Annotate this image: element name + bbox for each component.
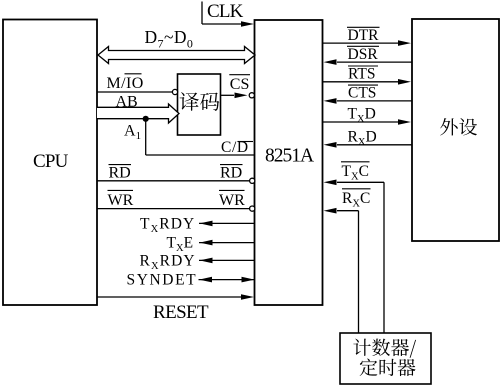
write strobe WR wire — [97, 190, 255, 211]
svg-text:8251A: 8251A — [265, 146, 314, 167]
counter/timer box 计数器/定时器 — [340, 333, 431, 384]
svg-text:RD: RD — [109, 165, 131, 182]
svg-text:DSR: DSR — [348, 46, 379, 63]
svg-text:AB: AB — [116, 94, 138, 111]
svg-text:M/IO: M/IO — [107, 75, 144, 92]
read strobe RD wire — [97, 165, 255, 184]
C/D control line label — [221, 139, 253, 156]
RxC receive clock from counter/timer — [324, 189, 371, 333]
RESET wire — [97, 294, 254, 323]
TxC transmit clock from counter/timer — [324, 162, 385, 333]
svg-text:TXRDY: TXRDY — [140, 215, 195, 235]
TxRDY status output — [140, 215, 255, 235]
TxE status output — [167, 235, 255, 255]
DTR output to peripheral — [323, 27, 412, 46]
svg-text:CS: CS — [230, 76, 250, 93]
TxD transmit data to peripheral — [323, 106, 412, 126]
svg-text:D7~D0: D7~D0 — [145, 27, 194, 51]
svg-text:WR: WR — [108, 192, 134, 209]
svg-text:RXRDY: RXRDY — [140, 252, 196, 272]
svg-text:CPU: CPU — [33, 151, 69, 172]
CPU box — [3, 20, 97, 306]
svg-text:WR: WR — [219, 192, 245, 209]
SYNDET bidirectional signal — [127, 272, 255, 289]
RxRDY status output — [140, 252, 255, 272]
svg-text:RD: RD — [220, 165, 242, 182]
8251A box U1 — [255, 20, 323, 305]
CTS input from peripheral — [324, 85, 413, 104]
data bus D7~D0 (double hollow arrow) — [98, 27, 255, 64]
svg-text:CLK: CLK — [207, 1, 244, 22]
CLK signal wire — [202, 1, 254, 27]
chip select CS from decoder — [221, 75, 255, 98]
svg-text:CTS: CTS — [348, 85, 376, 102]
address bus AB (hollow arrow into decoder) — [97, 94, 179, 124]
svg-text:SYNDET: SYNDET — [127, 272, 198, 289]
RxD receive data from peripheral — [324, 129, 413, 149]
svg-text:RTS: RTS — [348, 66, 376, 83]
DSR input from peripheral — [324, 46, 413, 65]
svg-text:RESET: RESET — [153, 302, 209, 323]
M/IO wire to decoder (active-low bubble) — [97, 74, 178, 95]
svg-text:C/D: C/D — [221, 139, 249, 156]
address line A1 with junction dot — [124, 116, 255, 155]
svg-text:DTR: DTR — [348, 27, 380, 44]
decoder box 译码 — [178, 74, 221, 135]
peripheral box 外设 — [412, 19, 499, 241]
RTS output to peripheral — [323, 66, 412, 85]
